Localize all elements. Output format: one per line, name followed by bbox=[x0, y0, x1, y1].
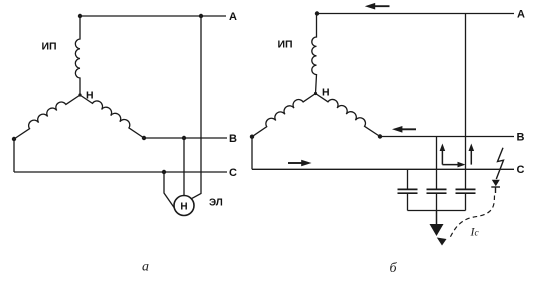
current arrow up 2 between B and C (diagram b) bbox=[469, 144, 475, 165]
wire: phase B bus (diagram b) bbox=[380, 136, 514, 138]
svg-text:ИП: ИП bbox=[278, 39, 293, 51]
svg-text:Н: Н bbox=[322, 87, 330, 99]
inductor: source winding IP (diagram b) bbox=[312, 14, 317, 94]
wire: phase A bus (diagram a) bbox=[80, 15, 226, 17]
svg-text:C: C bbox=[517, 164, 525, 176]
svg-text:B: B bbox=[517, 131, 525, 143]
wire: phase C bus (diagram b) bbox=[252, 168, 514, 170]
node: winding tap on A (diagram a) bbox=[78, 14, 82, 18]
inductor: source winding IP phase A (diagram a) bbox=[75, 16, 80, 95]
node: winding end left (diagram a) bbox=[12, 137, 16, 141]
wire: drop from A to capacitor (diagram b) bbox=[465, 14, 467, 190]
current arrow on A (diagram b) bbox=[365, 3, 390, 10]
capacitor middle (diagram b) bbox=[427, 189, 447, 210]
svg-text:ИП: ИП bbox=[42, 41, 57, 53]
node: winding end at B (diagram b) bbox=[378, 134, 382, 138]
svg-text:Н: Н bbox=[180, 201, 187, 212]
svg-text:A: A bbox=[229, 11, 237, 23]
node: winding end left (diagram b) bbox=[250, 135, 254, 139]
svg-text:C: C bbox=[229, 167, 237, 179]
inductor: winding phase C right (diagram a) bbox=[80, 95, 144, 138]
inductor: winding left (diagram b) bbox=[252, 94, 316, 137]
lamp EL (diagram a) bbox=[174, 196, 194, 216]
capacitor right (diagram b) bbox=[456, 189, 476, 210]
wire: left drop to C bus (diagram a) bbox=[13, 139, 15, 172]
node N neutral (diagram b) bbox=[314, 92, 317, 95]
inductor: winding phase B left (diagram a) bbox=[14, 95, 80, 139]
node: winding end at B (diagram a) bbox=[142, 136, 146, 140]
svg-text:B: B bbox=[229, 133, 237, 145]
dashed path of capacitive current (diagram b) bbox=[437, 196, 495, 246]
wire: lamp lead from B (diagram a) bbox=[183, 138, 185, 197]
wire: phase B bus (diagram a) bbox=[144, 137, 227, 139]
current arrow Ic down to earth (diagram b) bbox=[430, 211, 444, 237]
capacitor left (diagram b) bbox=[398, 169, 418, 210]
node: lamp branch on B (diagram a) bbox=[182, 136, 186, 140]
current arrow on C (diagram b) bbox=[288, 160, 312, 167]
node: lamp branch on C (diagram a) bbox=[162, 170, 166, 174]
wire: drop from B to capacitor (diagram b) bbox=[436, 137, 438, 190]
svg-text:с: с bbox=[475, 229, 480, 239]
node: winding tap on A (diagram b) bbox=[315, 11, 319, 15]
lightning: earth fault on phase C (diagram b) bbox=[491, 148, 503, 193]
wire: left drop to C bus (diagram b) bbox=[251, 137, 253, 170]
current arrow up 1 between B and C (diagram b) bbox=[440, 144, 446, 165]
svg-text:а: а bbox=[142, 260, 149, 275]
wire: phase A bus (diagram b) bbox=[317, 13, 514, 15]
svg-text:б: б bbox=[390, 261, 398, 276]
wire: capacitor common bus (diagram b) bbox=[408, 210, 466, 212]
node N neutral (diagram a) bbox=[78, 93, 81, 96]
wire: lamp lead from A (diagram a) bbox=[191, 16, 202, 199]
wire: lamp lead from C (diagram a) bbox=[164, 172, 177, 212]
current arrow right between B and C (diagram b) bbox=[442, 162, 465, 168]
node: lamp branch on A (diagram a) bbox=[199, 14, 203, 18]
inductor: winding right (diagram b) bbox=[316, 94, 381, 137]
current arrow on B (diagram b) bbox=[392, 126, 416, 133]
wire: phase C bus (diagram a) bbox=[14, 171, 227, 173]
svg-text:A: A bbox=[517, 9, 525, 21]
svg-text:ЭЛ: ЭЛ bbox=[209, 198, 223, 209]
